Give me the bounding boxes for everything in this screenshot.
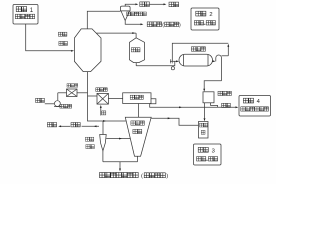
svg-text:(: ( — [141, 174, 143, 180]
wire lineA — [150, 99, 236, 108]
wire feed — [26, 24, 71, 51]
wire mill-out — [212, 60, 215, 62]
wire waste-powder — [125, 21, 140, 25]
box gongxu1 — [13, 5, 38, 25]
wire downcomer — [88, 72, 127, 121]
cyclone1 — [120, 6, 130, 11]
box gongxu3 — [194, 144, 222, 165]
box gongxu4 — [239, 96, 271, 117]
wire tower-top — [87, 11, 120, 29]
box pretreat — [199, 122, 209, 139]
wire tower-bin — [96, 32, 136, 34]
wire bin-mill — [136, 61, 175, 66]
label bottom — [100, 173, 105, 178]
wire lineB — [151, 118, 198, 125]
mill — [179, 54, 213, 66]
svg-text:(: ( — [162, 23, 164, 29]
fan — [55, 101, 61, 107]
filterpress — [203, 92, 214, 103]
label qiumoji — [191, 47, 195, 51]
svg-text:): ) — [179, 23, 181, 29]
funnel — [125, 117, 151, 156]
wire collect — [103, 161, 138, 163]
wire loop — [172, 43, 228, 61]
tower — [74, 29, 101, 72]
svg-text:): ) — [166, 174, 168, 180]
svg-text:3: 3 — [212, 148, 215, 154]
cyclone2 — [102, 121, 104, 135]
label xuanfengfenliqi — [127, 12, 131, 16]
wire gas-left — [47, 123, 51, 127]
label taoci jiangliao — [58, 32, 62, 36]
box gongxu2 — [191, 8, 219, 30]
wire press-down — [204, 103, 206, 118]
wire to-press — [204, 81, 221, 89]
wire press-step — [211, 103, 218, 108]
dustbox — [123, 93, 151, 104]
xbox2 — [97, 93, 108, 104]
wire gas-out — [125, 4, 135, 6]
svg-text:2: 2 — [209, 12, 212, 18]
bin — [130, 38, 145, 63]
xbox1 — [67, 89, 78, 97]
